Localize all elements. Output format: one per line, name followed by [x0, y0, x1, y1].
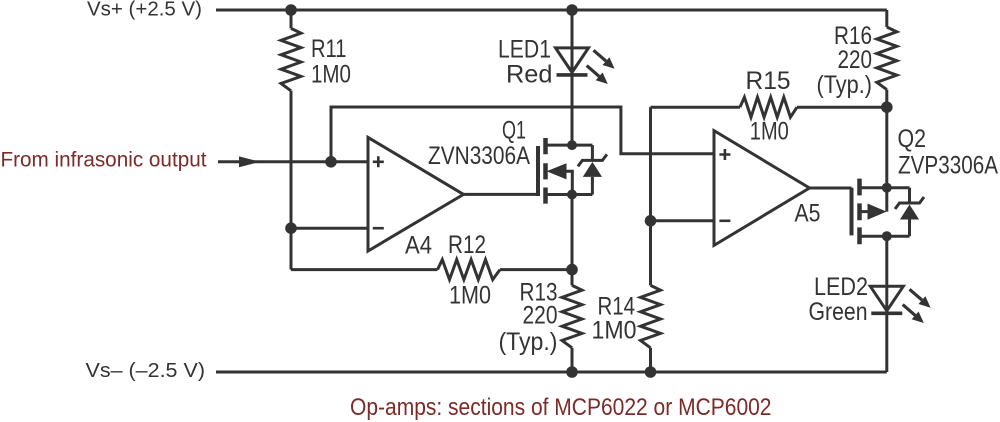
wire Vs+ through LED1 to Q1 drain — [571, 10, 574, 145]
wire Q1 drain to body diode — [572, 144, 592, 147]
svg-text:From infrasonic output: From infrasonic output — [1, 149, 207, 172]
svg-text:A4: A4 — [405, 231, 432, 259]
junction A5 - node — [645, 215, 657, 227]
svg-text:LED2: LED2 — [814, 273, 868, 301]
wire Q1 drain stub — [548, 144, 573, 147]
wire Q1 source to R13 — [571, 195, 574, 286]
wire A4 output to Q1 gate — [464, 193, 537, 196]
svg-text:1M0: 1M0 — [449, 282, 491, 310]
svg-text:220: 220 — [838, 46, 873, 74]
svg-text:R15: R15 — [746, 67, 791, 95]
junction Vs+/R11 — [285, 4, 297, 16]
wire Q1 source stub — [548, 193, 573, 196]
LED2 symbol — [870, 286, 903, 313]
svg-text:ZVN3306A: ZVN3306A — [428, 142, 530, 170]
junction A4 + node — [325, 156, 337, 168]
wire Q1 body diode to source — [572, 193, 592, 196]
wire Q2 body diode to drain — [887, 235, 910, 238]
svg-text:220: 220 — [523, 301, 558, 329]
svg-text:R12: R12 — [448, 231, 486, 259]
svg-text:Q1: Q1 — [502, 117, 526, 145]
svg-text:1M0: 1M0 — [592, 317, 637, 345]
junction A4 - node — [285, 222, 297, 234]
transistor Q2 body arrow — [868, 204, 887, 220]
junction R15/R16/Q2 — [881, 101, 893, 113]
wire Vs- bottom rail — [216, 371, 887, 374]
junction Q2 source — [882, 183, 892, 193]
svg-text:Q2: Q2 — [898, 125, 927, 153]
wire Vs+ top rail — [216, 9, 887, 12]
junction R14/Vs- — [645, 366, 657, 378]
wire Q2 source stub — [862, 186, 887, 189]
wire Q2 body to source — [885, 188, 888, 212]
LED2 emission arrows — [903, 289, 931, 323]
wire A4 - node to R12 — [291, 268, 438, 271]
svg-text:(Typ.): (Typ.) — [817, 71, 873, 99]
transistor Q2 gate plate — [850, 188, 854, 236]
wire R13 to Vs- rail — [571, 348, 574, 372]
svg-text:LED1: LED1 — [498, 35, 551, 63]
junction R13/Vs- — [566, 366, 578, 378]
wire R14 to Vs- rail — [649, 348, 652, 372]
LED1 emission arrows — [587, 50, 615, 84]
wire R16 node to Q2 source — [885, 107, 888, 188]
transistor Q1 channel bar — [543, 138, 548, 204]
wire Q2 body stub — [862, 210, 869, 213]
resistor R11 — [281, 28, 301, 90]
wire Q2 drain through LED2 to Vs- — [885, 236, 888, 372]
svg-text:R11: R11 — [311, 35, 347, 63]
wire Q2 drain stub — [862, 235, 887, 238]
wire R15 left down through A5 - node to R14 — [649, 107, 652, 285]
wire R15 to R16 node — [797, 106, 887, 109]
resistor R15 — [740, 97, 797, 117]
svg-text:Green: Green — [809, 298, 868, 326]
input signal arrow — [239, 156, 260, 167]
LED1 symbol — [556, 48, 589, 75]
junction R12/R13/Q1 source — [566, 264, 578, 276]
svg-text:Red: Red — [506, 60, 553, 88]
junction Q1 source — [567, 190, 577, 200]
svg-text:Op-amps: sections of MCP6022 o: Op-amps: sections of MCP6022 or MCP6002 — [350, 394, 772, 421]
transistor Q2 channel bar — [857, 179, 862, 245]
wire Q1 body to source — [565, 171, 572, 194]
wire Vs+ to R11 — [290, 10, 293, 28]
junction Vs+/LED1 — [566, 4, 578, 16]
wire A4 + node to A5 + input — [331, 107, 714, 162]
wire R16 to R15 node — [885, 90, 888, 108]
svg-text:(Typ.): (Typ.) — [499, 328, 558, 356]
diode Q1 body zener — [578, 145, 607, 194]
svg-text:Vs– (–2.5 V): Vs– (–2.5 V) — [86, 360, 206, 382]
junction Q1 drain — [567, 140, 577, 150]
junction Q2 drain — [882, 231, 892, 241]
resistor R14 — [641, 285, 661, 347]
wire A5 - node to R15 — [651, 106, 741, 109]
wire R11 to A4 - node — [290, 91, 293, 270]
svg-text:1M0: 1M0 — [750, 118, 789, 146]
wire A5 output to Q2 gate — [810, 187, 852, 190]
svg-text:1M0: 1M0 — [311, 61, 351, 89]
resistor R16 — [877, 27, 897, 90]
svg-text:A5: A5 — [795, 200, 821, 228]
svg-text:Vs+ (+2.5 V): Vs+ (+2.5 V) — [87, 0, 202, 21]
diode Q2 body zener — [895, 188, 924, 237]
resistor R13 — [562, 285, 582, 347]
wire Q2 source to body diode — [887, 186, 910, 189]
svg-text:ZVP3306A: ZVP3306A — [898, 152, 998, 180]
op-amp A4 — [368, 137, 464, 251]
wire input to A4 + input — [218, 160, 368, 163]
wire R12 to R13 node — [500, 268, 572, 271]
resistor R12 — [438, 260, 501, 280]
wire Vs+ to R16 — [885, 10, 888, 27]
wire to A5 - input — [651, 219, 715, 222]
transistor Q1 gate plate — [536, 146, 540, 196]
wire to A4 - input — [291, 227, 368, 230]
transistor Q1 body arrow — [547, 163, 567, 179]
op-amp A5 — [714, 131, 810, 246]
